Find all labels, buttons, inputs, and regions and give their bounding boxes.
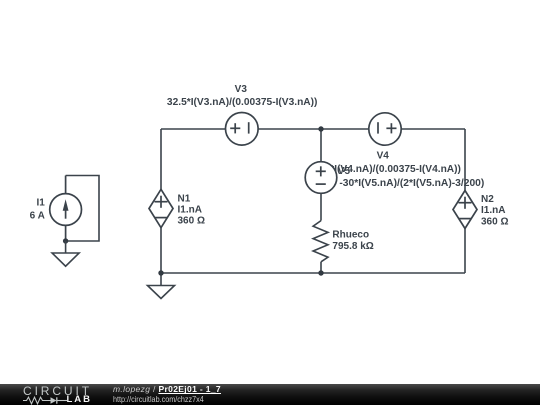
logo resistor-diode symbol (23, 396, 67, 405)
wire left vertical upper (top wire to N1) (160, 129, 162, 190)
svg-text:N2: N2 (481, 194, 494, 205)
wire middle vertical lower (Rhueco to bottom wire) (320, 262, 322, 273)
dependent source N2 (diamond) (453, 191, 477, 229)
svg-text:I1.nA: I1.nA (481, 205, 505, 216)
current source I1 6A (50, 176, 82, 242)
wire top right (V4 to corner) (401, 128, 465, 130)
wire top-left horizontal (node A) (161, 128, 225, 130)
voltage source V4 (horizontal, + right) (369, 113, 401, 145)
node junction dot at I1 bottom (63, 238, 68, 243)
svg-text:I1.nA: I1.nA (178, 205, 202, 216)
svg-text:V4: V4 (377, 151, 390, 162)
wire bottom horizontal (ground node) (161, 272, 465, 274)
wire top middle (V3 to V4) (258, 128, 369, 130)
dependent source N1 (diamond) (149, 189, 173, 227)
svg-text:795.8 kΩ: 795.8 kΩ (332, 241, 373, 252)
footer title text (113, 385, 221, 394)
wire middle vertical (V5 to Rhueco) (320, 193, 322, 220)
svg-text:V3: V3 (235, 84, 248, 95)
ground (I1) (52, 241, 79, 266)
node junction dot bottom middle (318, 270, 323, 275)
wire middle vertical upper (junction to V5) (320, 129, 322, 162)
svg-text:Rhueco: Rhueco (332, 229, 369, 240)
voltage source V5 (vertical, + top) (305, 162, 337, 194)
svg-text:360 Ω: 360 Ω (481, 216, 508, 227)
svg-text:360 Ω: 360 Ω (178, 216, 205, 227)
svg-text:N1: N1 (178, 194, 191, 205)
wire left vertical lower (N1 to bottom wire) (160, 228, 162, 273)
svg-text:6 A: 6 A (30, 211, 45, 222)
svg-text:V5: V5 (338, 166, 351, 177)
wire right vertical upper (corner to N2) (464, 129, 466, 191)
footer bar (0, 384, 540, 405)
wire I1 short loop (66, 176, 99, 242)
wire right vertical lower (N2 to bottom wire) (464, 229, 466, 274)
logo LAB text (67, 396, 93, 404)
ground (main, below N1) (148, 273, 175, 299)
footer url text (113, 395, 204, 404)
svg-text:-30*I(V5.nA)/(2*I(V5.nA)-3/200: -30*I(V5.nA)/(2*I(V5.nA)-3/200) (339, 178, 484, 189)
svg-text:32.5*I(V3.nA)/(0.00375-I(V3.nA: 32.5*I(V3.nA)/(0.00375-I(V3.nA)) (167, 97, 318, 108)
resistor Rhueco (313, 221, 328, 262)
node junction dot bottom left (158, 270, 163, 275)
CircuitLab logo wordmark (23, 386, 92, 396)
svg-text:I1: I1 (36, 198, 45, 209)
voltage source V3 (horizontal, + left) (226, 113, 259, 146)
node junction dot top middle (318, 126, 323, 131)
